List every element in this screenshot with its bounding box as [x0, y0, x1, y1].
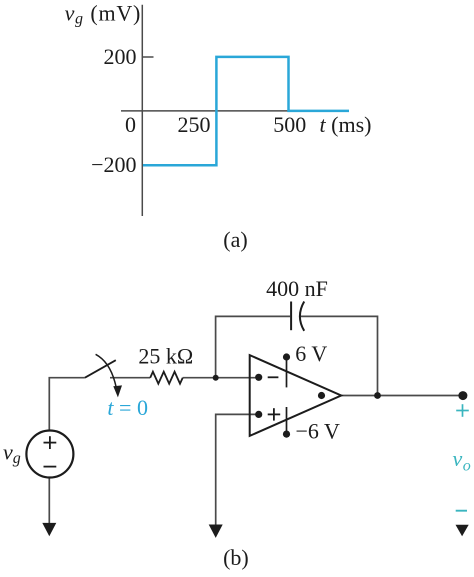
svg-text:25 kΩ: 25 kΩ — [138, 344, 193, 369]
svg-text:−6 V: −6 V — [296, 418, 341, 443]
svg-text:250: 250 — [178, 112, 211, 137]
svg-text:(a): (a) — [223, 227, 247, 252]
svg-text:t = 0: t = 0 — [107, 395, 148, 420]
svg-text:(b): (b) — [223, 545, 249, 570]
svg-text:6 V: 6 V — [295, 341, 327, 366]
svg-text:0: 0 — [125, 112, 136, 137]
svg-text:400 nF: 400 nF — [266, 276, 328, 301]
svg-text:200: 200 — [104, 44, 137, 69]
svg-text:−200: −200 — [91, 152, 136, 177]
svg-text:500: 500 — [273, 112, 306, 137]
svg-text:t (ms): t (ms) — [320, 112, 372, 137]
